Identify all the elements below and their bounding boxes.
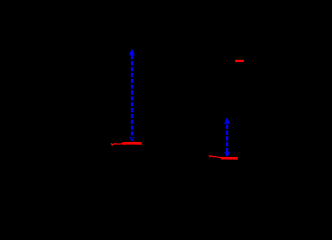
- red dash (upper level marker): [235, 60, 244, 62]
- red level 2 thick part: [221, 157, 238, 160]
- arrow B dashed shaft: [226, 124, 228, 153]
- arrow A down head hole: [131, 137, 134, 139]
- red level 1 thick part: [122, 142, 142, 145]
- arrow B down head: [224, 152, 230, 157]
- arrow A down head: [129, 137, 135, 142]
- red level 1 thin wavy part: [111, 143, 122, 145]
- red level 2 thin wavy part: [209, 155, 221, 157]
- arrow A dashed shaft: [131, 55, 133, 136]
- arrow B up head: [224, 117, 230, 124]
- arrow A up head: [129, 48, 135, 55]
